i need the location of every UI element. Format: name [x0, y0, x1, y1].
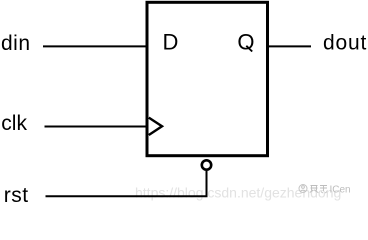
wire dout — [268, 45, 312, 47]
svg-text:din: din — [1, 32, 31, 55]
clock edge triangle — [149, 118, 162, 135]
pin label Q — [237, 30, 254, 55]
flip-flop U1 body — [147, 2, 268, 155]
wire clk — [45, 126, 148, 128]
reset bubble (active-low) — [202, 160, 211, 169]
svg-text:rst: rst — [4, 184, 29, 207]
svg-text:D: D — [163, 30, 179, 55]
wire rst horizontal — [46, 195, 208, 197]
svg-text:dout: dout — [323, 32, 367, 55]
svg-text:ICen: ICen — [330, 185, 351, 196]
wire din — [43, 45, 147, 47]
watermark avatar icon — [299, 185, 307, 193]
svg-text:clk: clk — [1, 112, 27, 135]
watermark nickname 数学ICen — [310, 185, 327, 193]
wire rst vertical — [206, 171, 208, 196]
